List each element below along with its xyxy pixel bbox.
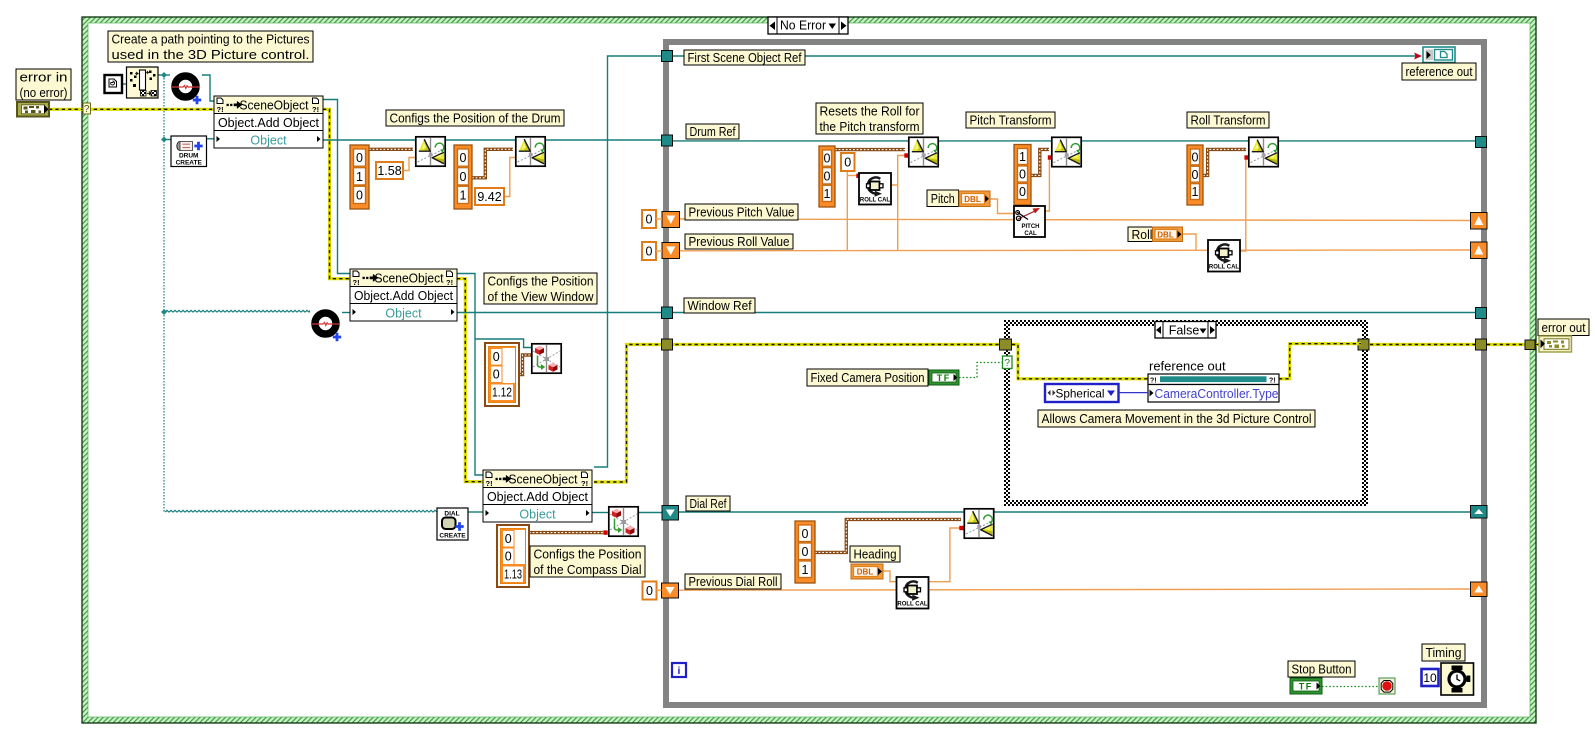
svg-text:used in the 3D Picture control: used in the 3D Picture control. — [112, 47, 310, 62]
DBL terminal Heading — [851, 564, 883, 579]
ROLL CAL subVI 1 — [859, 173, 891, 205]
wire arrowhead — [1414, 53, 1422, 60]
svg-text:0: 0 — [356, 189, 363, 203]
svg-text:CREATE: CREATE — [439, 533, 466, 540]
vector wire array1 to rotate — [369, 148, 413, 151]
svg-text:?!: ?! — [312, 105, 319, 114]
comment configs view window — [484, 273, 597, 304]
translate object VI 1 — [532, 344, 561, 373]
build path icon — [127, 67, 159, 98]
svg-text:?!: ?! — [217, 105, 224, 114]
constant 0 dial — [643, 582, 657, 600]
svg-text:0: 0 — [1019, 185, 1026, 199]
constant 0 pitch — [642, 210, 656, 228]
svg-text:1.13: 1.13 — [504, 568, 522, 582]
pitch dbl wire — [990, 199, 1014, 214]
TF constant stop button — [1290, 678, 1322, 694]
vector wire array2 to rotate — [472, 149, 513, 178]
label pitch indicator — [927, 190, 959, 207]
svg-text:Timing: Timing — [1426, 645, 1462, 660]
svg-text:0: 0 — [493, 368, 500, 382]
svg-text:of the View Window: of the View Window — [488, 289, 595, 304]
svg-text:1: 1 — [824, 187, 831, 201]
svg-text:?!: ?! — [486, 479, 493, 488]
wire vertical branch x164 — [163, 75, 165, 512]
svg-text:?!: ?! — [446, 278, 453, 287]
svg-text:PITCH: PITCH — [1022, 224, 1040, 230]
vector wire cluster to translate — [519, 355, 531, 375]
label roll indicator — [1128, 227, 1156, 242]
label fixed camera position — [807, 369, 928, 386]
svg-text:Heading: Heading — [854, 547, 897, 562]
error wire in false case — [1012, 345, 1148, 379]
pitch cal out to rotate4 — [1045, 158, 1052, 212]
array constant 1 0 0 pitch — [1014, 145, 1031, 206]
dial object wire — [592, 512, 608, 514]
tunnel error left — [662, 339, 673, 350]
wire drum create to node1 object — [207, 138, 217, 140]
tunnel window ref left — [662, 307, 673, 319]
tunnel error false right — [1358, 339, 1369, 350]
svg-text:10: 10 — [1423, 671, 1437, 685]
svg-text:?: ? — [84, 104, 90, 115]
enum wire — [1119, 392, 1149, 394]
label previous pitch value — [685, 204, 798, 220]
rotate object VI 4 — [1052, 137, 1081, 166]
svg-text:DBL: DBL — [964, 195, 981, 204]
svg-text:1: 1 — [356, 170, 363, 184]
shift register dial roll left — [662, 583, 679, 598]
drum create VI — [171, 136, 207, 167]
svg-text:0: 0 — [802, 527, 809, 541]
svg-text:Stop Button: Stop Button — [1292, 662, 1352, 677]
shift register dial ref right — [1471, 506, 1488, 519]
svg-text:0: 0 — [824, 169, 831, 183]
svg-text:Fixed Camera Position: Fixed Camera Position — [811, 370, 925, 385]
array constant 0 1 0 — [350, 145, 369, 209]
terminal red dot — [1244, 155, 1248, 159]
svg-text:Create a path pointing to the: Create a path pointing to the Pictures — [112, 31, 310, 46]
constant 0 roll — [642, 242, 656, 260]
svg-text:?: ? — [1004, 357, 1010, 369]
svg-text:Previous Dial Roll: Previous Dial Roll — [689, 574, 778, 589]
shift register dial ref left — [662, 506, 679, 521]
TF constant fixed camera — [929, 370, 959, 385]
svg-text:Pitch Transform: Pitch Transform — [970, 113, 1052, 128]
svg-text:error out: error out — [1542, 320, 1586, 335]
error wire node3 to loop — [594, 345, 666, 483]
svg-text:Configs the Position of the Dr: Configs the Position of the Drum — [390, 111, 561, 126]
svg-text:Previous Pitch Value: Previous Pitch Value — [689, 205, 795, 220]
svg-text:1.58: 1.58 — [377, 164, 401, 178]
tunnel error false left — [1000, 339, 1012, 350]
error wire node1 to node2 — [323, 109, 350, 278]
svg-text:0: 0 — [460, 170, 467, 184]
svg-text:0: 0 — [844, 156, 851, 170]
wire 1.58 to rotate — [403, 158, 415, 171]
wire drum object to node1 — [202, 75, 214, 101]
error wire to loop edge — [1370, 343, 1476, 346]
svg-text:Window Ref: Window Ref — [688, 298, 752, 313]
rotate object VI 5 — [1249, 137, 1278, 166]
vector wire array5 to rotate5 — [1203, 149, 1246, 175]
terminal red dot — [904, 153, 908, 157]
svg-text:0: 0 — [505, 550, 512, 564]
roll cal out to rotate3 — [898, 156, 905, 186]
label error in — [16, 69, 71, 100]
wire 9.42 to rotate — [504, 158, 515, 197]
svg-text:F: F — [944, 373, 950, 383]
wire 0 to SR — [656, 250, 662, 252]
wire window object to node2 — [342, 312, 351, 314]
label stop button — [1288, 661, 1355, 677]
svg-text:0: 0 — [646, 213, 653, 227]
svg-text:Pitch: Pitch — [931, 191, 955, 206]
rotate object VI 6 — [964, 509, 993, 538]
svg-text:ROLL CAL: ROLL CAL — [1209, 265, 1240, 271]
drum 3D object — [170, 71, 202, 104]
svg-text:DBL: DBL — [857, 568, 874, 577]
svg-text:reference out: reference out — [1149, 359, 1226, 374]
svg-text:1: 1 — [802, 563, 809, 577]
array constant 0 0 1 dial — [795, 521, 815, 583]
error wire node2 to node3 — [457, 279, 483, 482]
terminal red dot — [603, 530, 607, 534]
svg-text:Dial Ref: Dial Ref — [690, 496, 727, 511]
svg-text:Object: Object — [519, 507, 556, 521]
first scene ref wire inside — [669, 55, 1419, 57]
window ref wire — [457, 312, 666, 314]
svg-text:False: False — [1169, 324, 1200, 338]
svg-text:Configs the Position: Configs the Position — [534, 546, 642, 561]
label timing — [1422, 644, 1465, 661]
case selector False — [1155, 322, 1216, 339]
rotate object VI 3 — [909, 137, 938, 166]
previous roll value wire — [680, 249, 1471, 252]
vector wire array4 to rotate4 — [1031, 149, 1049, 175]
stop button wire — [1322, 686, 1378, 688]
property node CameraController — [1148, 374, 1279, 402]
svg-text:?!: ?! — [353, 278, 360, 287]
tunnel drum ref right — [1476, 137, 1487, 148]
comment create path — [108, 31, 313, 62]
svg-text:0: 0 — [356, 151, 363, 165]
loop condition terminal — [1379, 678, 1395, 694]
case selector No Error — [768, 17, 848, 34]
case structure False border — [1004, 320, 1368, 506]
path constant icon — [105, 75, 123, 93]
svg-text:SceneObject: SceneObject — [509, 473, 579, 487]
dial ref wire inside — [678, 511, 1471, 513]
svg-text:1.12: 1.12 — [492, 386, 512, 400]
comment allows camera movement — [1038, 410, 1315, 427]
error out indicator terminal — [1539, 336, 1572, 352]
previous pitch value wire — [680, 219, 1471, 221]
shift register pitch left — [662, 212, 680, 228]
drum ref wire — [323, 139, 666, 141]
window 3D object — [310, 308, 342, 341]
roll cal out down — [891, 185, 898, 251]
array constant 0 0 1 drum — [819, 146, 835, 207]
DBL terminal Pitch — [959, 191, 990, 207]
label error out — [1538, 319, 1589, 336]
array constant 0 0 1 roll — [1187, 145, 1203, 205]
svg-text:Object.Add Object: Object.Add Object — [218, 116, 320, 130]
wait ms timer VI — [1441, 663, 1474, 695]
svg-text:DBL: DBL — [1157, 230, 1174, 239]
rotate object VI 2 — [516, 137, 545, 166]
previous dial roll wire — [678, 589, 1471, 590]
drum ref wire inside — [669, 140, 1481, 142]
terminal red dot — [1048, 155, 1052, 159]
first scene object ref wire — [594, 56, 666, 467]
vector wire array3 to rotate3 — [835, 148, 905, 151]
svg-text:of the Compass Dial: of the Compass Dial — [534, 562, 642, 577]
rotate object VI 1 — [416, 137, 445, 166]
roll feed vertical — [846, 171, 848, 251]
shift register roll left — [662, 243, 680, 259]
constant 0 roll cal — [841, 153, 855, 171]
wire to window object — [165, 310, 310, 312]
shift register dial roll right — [1471, 582, 1488, 597]
tunnel question mark error in — [83, 103, 91, 115]
svg-text:Object: Object — [385, 306, 422, 320]
heading dbl wire — [883, 571, 897, 582]
svg-text:1: 1 — [460, 189, 467, 203]
junction — [161, 72, 167, 78]
svg-text:ROLL CAL: ROLL CAL — [860, 198, 891, 204]
svg-text:Previous Roll Value: Previous Roll Value — [689, 234, 790, 249]
wire to drum object — [158, 74, 171, 76]
junction — [161, 309, 167, 315]
terminal red dot — [856, 174, 860, 178]
svg-text:(no error): (no error) — [20, 85, 68, 100]
comment resets roll — [816, 103, 923, 134]
svg-text:Configs the Position: Configs the Position — [488, 273, 594, 288]
fixed camera position wire — [959, 363, 1002, 378]
svg-text:F: F — [1306, 681, 1312, 691]
svg-text:0: 0 — [1192, 168, 1199, 182]
vector wire cluster2 to translate2 — [529, 531, 603, 534]
PITCH CAL subVI — [1014, 206, 1045, 237]
error wire to error out — [1536, 343, 1540, 346]
label window ref — [684, 298, 755, 313]
iteration terminal — [672, 663, 686, 677]
roll dbl wire — [1182, 234, 1196, 251]
translate object VI 2 — [609, 507, 638, 536]
error wire to false case — [669, 343, 1002, 346]
invoke node 1 Object.Add Object — [214, 96, 323, 148]
comment configs compass dial — [530, 546, 645, 577]
constant 9.42 — [475, 188, 504, 205]
svg-text:0: 0 — [1019, 168, 1026, 182]
while loop border — [666, 42, 1484, 705]
svg-text:No Error: No Error — [780, 19, 826, 33]
svg-text:Resets the Roll for: Resets the Roll for — [820, 103, 921, 118]
ROLL CAL subVI 3 — [897, 577, 929, 609]
roll cal3 out to rotate6 — [929, 528, 962, 582]
vector wire array6 to rotate6 — [815, 519, 961, 552]
label roll transform — [1187, 112, 1269, 128]
label first scene object ref — [684, 50, 805, 65]
svg-text:0: 0 — [460, 151, 467, 165]
wire 0 to roll cal — [847, 175, 859, 177]
cluster constant 1.13 — [497, 525, 529, 587]
svg-text:Roll Transform: Roll Transform — [1191, 113, 1266, 128]
svg-text:9.42: 9.42 — [477, 190, 501, 204]
svg-text:Object.Add Object: Object.Add Object — [487, 490, 589, 504]
svg-text:First Scene Object Ref: First Scene Object Ref — [688, 50, 802, 65]
label previous dial roll — [685, 574, 781, 589]
constant 1.58 — [376, 162, 403, 179]
error wire out of false case — [1279, 344, 1361, 379]
svg-text:Roll: Roll — [1132, 227, 1153, 242]
invoke node 3 Object.Add Object — [483, 470, 592, 522]
svg-text:0: 0 — [505, 532, 512, 546]
svg-text:?!: ?! — [1150, 378, 1157, 385]
svg-text:1: 1 — [1192, 185, 1199, 199]
array constant 0 0 1 — [454, 145, 472, 209]
tunnel error right — [1476, 339, 1487, 350]
error in wire — [49, 108, 214, 111]
roll cal2 out to rotate5 — [1240, 158, 1248, 252]
ROLL CAL subVI 2 — [1208, 240, 1240, 272]
label pitch transform — [966, 112, 1055, 128]
reference out indicator terminal — [1423, 47, 1455, 63]
wire branch to translate — [475, 339, 531, 348]
junction — [161, 137, 167, 143]
svg-text:0: 0 — [1192, 151, 1199, 165]
wire dial create to node3 — [468, 511, 484, 513]
svg-text:Spherical: Spherical — [1056, 387, 1105, 401]
svg-text:T: T — [937, 373, 943, 383]
enum constant Spherical — [1045, 384, 1119, 402]
svg-text:Object: Object — [250, 133, 287, 147]
svg-text:Object.Add Object: Object.Add Object — [354, 289, 454, 303]
svg-text:0: 0 — [824, 152, 831, 166]
wire node1 ref to node2 — [323, 100, 350, 274]
svg-text:CameraController.Type: CameraController.Type — [1155, 387, 1279, 401]
label drum ref — [686, 124, 739, 139]
invoke node 2 Object.Add Object — [350, 269, 457, 321]
label previous roll value — [685, 234, 793, 249]
svg-text:Allows Camera Movement in the: Allows Camera Movement in the 3d Picture… — [1042, 411, 1312, 426]
svg-text:T: T — [1299, 681, 1305, 691]
wire to dial create — [165, 510, 437, 512]
svg-text:reference out: reference out — [1406, 64, 1473, 79]
svg-text:0: 0 — [646, 584, 653, 598]
label dial ref — [686, 496, 730, 511]
svg-text:0: 0 — [646, 245, 653, 259]
dial create VI — [437, 508, 468, 540]
svg-text:ROLL CAL: ROLL CAL — [897, 602, 928, 608]
svg-text:Drum Ref: Drum Ref — [690, 124, 736, 139]
cluster constant 1.12 — [485, 343, 519, 406]
label reference out — [1402, 63, 1476, 80]
tunnel drum ref left — [662, 135, 673, 146]
shift register roll right — [1471, 242, 1488, 259]
tunnel first scene ref left — [662, 51, 673, 62]
window ref wire inside — [669, 312, 1481, 314]
wire 0 to SR — [657, 589, 662, 591]
wire node2 ref to node3 — [457, 274, 483, 476]
tunnel error case border — [1525, 340, 1535, 350]
constant 10 ms — [1422, 669, 1439, 686]
DBL terminal Roll — [1153, 227, 1183, 242]
svg-text:SceneObject: SceneObject — [375, 272, 445, 286]
comment configs drum — [386, 110, 564, 126]
svg-text:i: i — [678, 665, 681, 677]
svg-text:?!: ?! — [1269, 378, 1276, 385]
svg-text:DRUM: DRUM — [179, 153, 199, 160]
svg-text:?!: ?! — [581, 479, 588, 488]
svg-text:SceneObject: SceneObject — [240, 99, 310, 113]
wire to drum create — [164, 139, 172, 141]
svg-text:CAL: CAL — [1024, 231, 1037, 237]
svg-text:CREATE: CREATE — [176, 160, 203, 167]
shift register pitch right — [1471, 213, 1488, 230]
error in control terminal — [17, 102, 49, 117]
terminal red dot — [959, 526, 963, 530]
svg-text:1: 1 — [1019, 150, 1026, 164]
svg-text:0: 0 — [493, 350, 500, 364]
wire 0 to SR — [656, 218, 662, 220]
label heading — [850, 546, 900, 562]
svg-text:DIAL: DIAL — [444, 511, 459, 518]
error wire loop to case edge — [1487, 343, 1526, 346]
tunnel question mark fixed camera — [1003, 356, 1013, 369]
svg-text:error in: error in — [20, 69, 68, 84]
dial object wire to SR — [639, 512, 663, 514]
svg-text:0: 0 — [802, 545, 809, 559]
svg-text:the Pitch transform: the Pitch transform — [820, 119, 920, 134]
wire path to dots — [122, 83, 127, 85]
tunnel window ref right — [1476, 308, 1487, 319]
